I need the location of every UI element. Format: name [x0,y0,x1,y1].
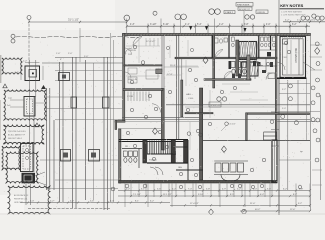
wing shelf vlines [287,40,291,74]
svg-text:6'-2": 6'-2" [292,24,297,26]
stair treads vertical [148,141,171,155]
svg-text:OFFICE: OFFICE [257,12,266,14]
int wall h y113 [185,113,213,114]
int wall h y104.8 long thin [166,104,310,106]
tag boxes right of stair [224,10,268,14]
int wall v x163 dark lower [161,89,164,151]
svg-text:C100: C100 [188,98,194,100]
svg-text:4'-0": 4'-0" [266,24,271,26]
hatched wall x248 upper [247,55,250,80]
hatched stair block 239-257 [239,42,257,60]
door arcs bottom center [150,167,158,175]
svg-text:7'-1 1/4": 7'-1 1/4" [133,194,141,196]
svg-text:9'-6 1/2": 9'-6 1/2" [228,124,236,126]
right vertical dim lines [279,36,321,215]
revision cloud 1 [4,90,46,120]
svg-text:8'-2": 8'-2" [293,194,297,196]
building right wall lower double [272,140,277,182]
vertical ext x80 [79,28,81,62]
svg-text:6'-2": 6'-2" [150,200,154,202]
svg-text:5'-8": 5'-8" [206,188,210,190]
open office room tag [217,97,227,101]
top-left dim line [28,21,128,23]
small texts center rooms [127,41,194,100]
dim line y67 hall [164,66,199,68]
svg-text:3'-6": 3'-6" [267,188,271,190]
revision cloud 5 [8,186,50,214]
extra fixtures dark marks [232,62,273,78]
svg-text:HALL: HALL [186,93,192,96]
grid bubbles top row [124,15,130,21]
svg-text:1'-2": 1'-2" [23,61,27,63]
furniture cluster bottom center-right [214,161,248,181]
int wall h y140 double [119,140,188,142]
faint fold line [0,213,325,215]
svg-text:TYP: TYP [8,98,13,100]
door arcs lower left rooms [152,104,161,113]
door arcs restrooms [256,59,263,66]
svg-text:2'-0": 2'-0" [68,53,73,55]
revision cloud 2 [4,125,45,144]
int wall h y65.5 [124,65,162,66]
bottom dim line 3 left [20,201,170,203]
left wall step [115,121,125,123]
key notes divider line [278,0,280,36]
right margin diamond [315,48,320,55]
wing room walls [280,36,306,77]
building bottom wall [119,180,278,183]
restroom lower cluster fixtures [231,62,246,74]
inner footing marks [62,75,96,158]
grid bubble 1 [27,16,31,20]
int wall h y79.5 [204,79,251,81]
canopy horizontal crossings [40,70,122,188]
revision cloud 6 small top [2,58,22,74]
svg-text:6'-2": 6'-2" [172,188,176,190]
svg-text:OPEN OFF: OPEN OFF [210,105,221,107]
grid bubble col line A [28,20,30,65]
column dim arrows [21,63,43,81]
revision cloud 3 [2,146,20,170]
svg-text:40'-2": 40'-2" [255,209,261,211]
hatched block lower middle [241,62,258,76]
svg-text:5'-0": 5'-0" [30,200,34,202]
int wall v x201 hatched [200,88,203,180]
column detail pass-through lines [30,60,36,97]
svg-text:2'-1": 2'-1" [297,20,302,22]
svg-text:KEY NOTES: KEY NOTES [280,3,303,8]
jamb detail 2 lower [21,144,34,172]
int wall v x182 [181,80,183,117]
svg-text:STAIR 2: STAIR 2 [225,11,234,14]
restroom walls [259,36,271,59]
wall below wing [277,77,307,79]
hatched vwall x237 [236,40,239,76]
bottom dim line 3 right [170,204,311,206]
casework bottom right corner [264,132,277,140]
svg-text:3'-2": 3'-2" [282,89,286,91]
svg-text:12'-6": 12'-6" [290,209,296,211]
door arc below cluster [224,72,231,79]
closet wall stub left of x162 [156,69,162,74]
bottom dim line 1 [118,189,311,191]
svg-text:8'-5": 8'-5" [230,194,234,196]
stair well walls bottom [143,140,147,163]
cloud2 tiny note text [8,131,26,140]
keynote diamonds scattered [153,57,227,152]
dark block detail [22,173,36,184]
svg-text:5'-6": 5'-6" [157,188,161,190]
fire riser tag boxes [236,3,253,11]
svg-text:3'-1": 3'-1" [141,188,145,190]
svg-text:6'-0": 6'-0" [110,200,114,202]
open office keynote circles [187,120,274,172]
svg-text:MECH/ELEC: MECH/ELEC [294,48,298,63]
right wall tick marks [271,112,279,146]
wall x246 down [246,113,248,141]
svg-text:5'-2": 5'-2" [237,188,241,190]
keynote circles right top cluster [245,15,255,19]
bottom grid bubbles [111,184,147,191]
canopy vertical lines [47,57,108,210]
delta triangles revision [3,84,39,127]
jamb wall lines through clouds [26,97,34,206]
toilet room walls x213/x229 [212,36,229,59]
small dim texts left cluster [56,53,89,61]
toilet room interior [215,50,223,58]
svg-text:21'-0": 21'-0" [250,203,256,205]
canopy top edge lines [42,58,123,64]
svg-text:8'-1": 8'-1" [135,200,139,202]
canopy footing rects [59,73,110,162]
dim extensions just left of building [111,33,114,202]
svg-text:AT ALL JAMBS TYP: AT ALL JAMBS TYP [8,134,26,137]
building left wall lower [119,129,121,183]
svg-text:11'-1 1/2": 11'-1 1/2" [163,194,172,196]
svg-text:5'-4": 5'-4" [197,24,202,26]
building top wall [123,33,311,35]
corridor thin pair x175/178 [177,35,179,140]
bottom dim extension lines [131,184,272,198]
faint hline y128.5 [118,128,162,130]
closet shelves room below y89 [128,92,149,102]
svg-text:6'-4 1/2": 6'-4 1/2" [308,20,316,22]
room 1 door arc [133,37,142,46]
int wall h y89.5 hatched [123,89,163,91]
cloud5 tiny note text [14,194,29,204]
svg-text:4'-2": 4'-2" [285,20,290,22]
bottom dim line 2 [118,195,311,197]
int wall v x163 thin upper [162,35,164,89]
svg-text:PROVIDE 2x6 BLKG: PROVIDE 2x6 BLKG [8,131,26,133]
svg-text:4'-2": 4'-2" [70,200,74,202]
restroom fixtures row [232,37,276,47]
grid bubbles B pair [11,34,15,43]
wing inner shelf line [298,39,300,75]
svg-text:JAN: JAN [178,166,182,169]
int wall v x214 [213,35,215,88]
svg-text:C101: C101 [282,57,288,59]
key notes first entries (tiny) [281,10,306,16]
building right wall [275,35,277,140]
bottom dim line 4 [240,210,311,212]
svg-text:1'-6": 1'-6" [56,53,61,55]
svg-text:4'-2": 4'-2" [126,188,130,190]
svg-text:1 2-HR FIRE BARRIER: 1 2-HR FIRE BARRIER [281,10,302,13]
jamb detail [24,97,35,117]
leaders near dark block [35,172,46,185]
svg-text:12'-4 1/2": 12'-4 1/2" [146,41,155,43]
svg-text:6'-2": 6'-2" [283,188,287,190]
svg-text:SEE DET 5/A5.1: SEE DET 5/A5.1 [8,137,22,140]
svg-text:5'-0": 5'-0" [282,108,286,110]
svg-text:31'-1 1/2": 31'-1 1/2" [68,17,79,21]
svg-text:6'-10": 6'-10" [163,24,169,26]
svg-text:4'-2": 4'-2" [219,24,224,26]
svg-text:9'-2": 9'-2" [298,203,302,205]
svg-text:STOR: STOR [127,96,133,98]
top main dim line [126,25,310,27]
svg-text:6": 6" [60,59,62,61]
svg-text:17'-4 1/2": 17'-4 1/2" [190,203,199,205]
wing inner fixture [283,39,288,44]
building left wall upper [123,33,125,121]
key notes underline [280,8,324,10]
right horizontal short dims [279,83,320,160]
room2 furniture [128,68,158,83]
corridor door arcs right [277,62,285,70]
leader slant right [303,62,315,70]
svg-text:OFFICE: OFFICE [128,50,137,52]
svg-text:7'-0": 7'-0" [188,188,192,190]
svg-text:WALK-IN: WALK-IN [128,78,137,81]
svg-text:5'-6": 5'-6" [90,200,94,202]
svg-text:3'-1/2": 3'-1/2" [150,24,157,26]
svg-text:3'-8": 3'-8" [244,24,249,26]
restroom fixtures bottom left [124,151,138,162]
scan smudge left edge [0,55,1,83]
svg-text:4'-9": 4'-9" [222,188,226,190]
left wall door arcs [125,48,132,55]
svg-text:6'-4": 6'-4" [260,194,264,196]
svg-text:4'-3": 4'-3" [130,24,135,26]
svg-text:FINISH W/ COL: FINISH W/ COL [14,199,27,201]
building top wall hatch ticks [124,33,309,36]
svg-text:4'-2": 4'-2" [50,200,54,202]
svg-text:STAIR 1: STAIR 1 [149,159,158,162]
svg-text:FIRE RISER: FIRE RISER [237,4,250,6]
wall y113.5 right band [246,113,310,115]
column detail square [25,66,40,81]
svg-text:ALIGN FACE OF: ALIGN FACE OF [14,194,29,197]
svg-text:4'-1": 4'-1" [185,24,190,26]
lavatory counter line [259,49,277,51]
svg-text:9'-10": 9'-10" [198,194,204,196]
interior faint dim lines rooms [126,37,268,150]
hall faint dims [166,40,188,75]
small rooms right of stairs [176,140,203,180]
int wall h y58 [175,57,277,59]
corridor line y119.5 long [118,119,310,121]
revision cloud 4 [6,152,38,183]
delta marker filled [41,85,46,89]
dark fixture blobs [229,52,272,69]
keynote diamonds near top wall [189,26,246,32]
dashed grid line B [16,36,139,38]
bottom keynote diamond [209,209,214,215]
right margin tick rows [310,45,322,185]
room1 closet marks [146,38,158,46]
right margin circles [281,42,320,162]
right top dim lines [283,21,325,23]
svg-text:RR: RR [125,146,129,148]
room tags circles top rooms [130,45,158,111]
